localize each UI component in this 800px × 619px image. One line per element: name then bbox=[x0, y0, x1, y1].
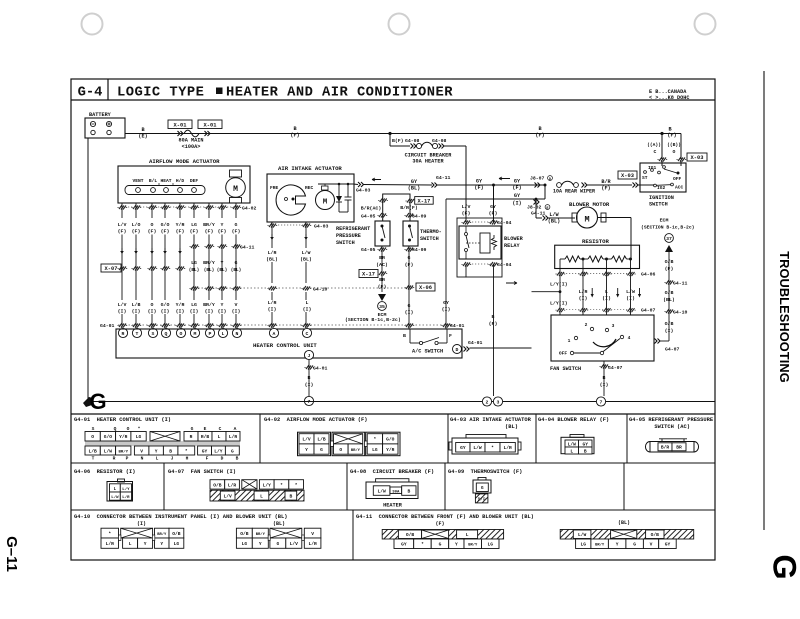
svg-text:L: L bbox=[218, 434, 221, 440]
svg-text:SWITCH (AC): SWITCH (AC) bbox=[654, 424, 690, 430]
svg-text:(I): (I) bbox=[148, 309, 157, 315]
svg-text:(F): (F) bbox=[512, 185, 521, 191]
svg-text:T: T bbox=[92, 456, 95, 462]
svg-text:(F): (F) bbox=[118, 229, 127, 235]
svg-text:Q: Q bbox=[165, 331, 168, 337]
svg-text:G4-01: G4-01 bbox=[313, 366, 328, 372]
svg-text:GY: GY bbox=[665, 542, 671, 548]
svg-text:L/Y(I): L/Y(I) bbox=[550, 301, 568, 307]
svg-text:S: S bbox=[152, 331, 155, 337]
svg-text:G: G bbox=[481, 485, 484, 491]
svg-text:(BL): (BL) bbox=[266, 257, 278, 263]
svg-text:M: M bbox=[323, 199, 328, 207]
svg-text:*: * bbox=[491, 445, 494, 451]
svg-text:R: R bbox=[113, 456, 116, 462]
svg-text:GY: GY bbox=[582, 441, 588, 447]
svg-text:G4-01 HEATER CONTROL UNIT (I): G4-01 HEATER CONTROL UNIT (I) bbox=[74, 417, 171, 423]
svg-text:BLOWER: BLOWER bbox=[504, 236, 524, 242]
svg-text:BR/Y: BR/Y bbox=[256, 532, 266, 537]
svg-text:G: G bbox=[633, 542, 636, 548]
svg-text:L/V: L/V bbox=[118, 302, 127, 308]
svg-text:GY: GY bbox=[401, 542, 407, 548]
svg-text:FRE: FRE bbox=[270, 185, 279, 191]
svg-text:O: O bbox=[151, 222, 154, 228]
svg-text:G4-08 CIRCUIT BREAKER (F): G4-08 CIRCUIT BREAKER (F) bbox=[350, 469, 434, 475]
svg-text:L/Y: L/Y bbox=[122, 487, 130, 492]
svg-text:L/R: L/R bbox=[228, 482, 237, 488]
svg-text:V: V bbox=[235, 302, 238, 308]
svg-text:(I): (I) bbox=[118, 309, 127, 315]
svg-text:G4-11: G4-11 bbox=[240, 245, 255, 251]
svg-text:G4-05: G4-05 bbox=[361, 247, 376, 253]
svg-text:G4-01: G4-01 bbox=[468, 340, 483, 346]
svg-text:BR: BR bbox=[676, 445, 682, 451]
svg-text:10A REAR WIPER: 10A REAR WIPER bbox=[553, 189, 595, 195]
svg-text:(BL): (BL) bbox=[189, 268, 200, 273]
svg-text:(F): (F) bbox=[665, 266, 674, 272]
svg-text:(I): (I) bbox=[600, 382, 609, 388]
svg-text:X-07: X-07 bbox=[105, 266, 118, 272]
svg-text:L: L bbox=[466, 532, 469, 538]
svg-text:O: O bbox=[151, 302, 154, 308]
svg-text:(I): (I) bbox=[442, 307, 451, 313]
svg-text:(F): (F) bbox=[462, 211, 471, 217]
svg-text:L/R: L/R bbox=[504, 445, 513, 451]
svg-text:G4-10: G4-10 bbox=[673, 310, 688, 316]
svg-text:GY: GY bbox=[490, 204, 496, 210]
svg-text:2: 2 bbox=[486, 400, 489, 406]
svg-text:G4-09: G4-09 bbox=[412, 247, 427, 253]
svg-text:J: J bbox=[308, 353, 311, 359]
svg-text:J: J bbox=[171, 456, 174, 462]
svg-text:G4-07: G4-07 bbox=[641, 308, 656, 314]
svg-text:L/W: L/W bbox=[626, 289, 635, 295]
svg-text:THERMO-: THERMO- bbox=[420, 229, 442, 235]
svg-text:B: B bbox=[308, 375, 311, 381]
svg-text:G4-07 FAN SWITCH (I): G4-07 FAN SWITCH (I) bbox=[168, 469, 236, 475]
svg-text:O/B: O/B bbox=[213, 482, 222, 488]
svg-text:L/Y: L/Y bbox=[214, 448, 223, 454]
svg-text:L/W: L/W bbox=[473, 445, 482, 451]
svg-text:P: P bbox=[126, 456, 129, 462]
svg-text:O/B: O/B bbox=[406, 532, 415, 538]
svg-text:BR/Y: BR/Y bbox=[157, 532, 167, 537]
svg-text:D: D bbox=[221, 456, 224, 462]
svg-text:L: L bbox=[129, 541, 132, 547]
svg-text:B: B bbox=[169, 448, 172, 454]
svg-text:(BL): (BL) bbox=[273, 521, 285, 527]
svg-text:X-03: X-03 bbox=[621, 173, 634, 179]
svg-text:(I): (I) bbox=[665, 328, 674, 334]
svg-text:G4-09: G4-09 bbox=[412, 214, 427, 220]
svg-text:G4-04: G4-04 bbox=[497, 262, 512, 268]
svg-text:O/B: O/B bbox=[665, 290, 674, 296]
svg-text:35: 35 bbox=[379, 304, 385, 310]
svg-text:*: * bbox=[374, 437, 377, 443]
svg-text:*: * bbox=[421, 542, 424, 548]
svg-text:L/V: L/V bbox=[224, 494, 233, 500]
svg-text:O: O bbox=[339, 447, 342, 453]
svg-text:Y/R: Y/R bbox=[386, 447, 395, 453]
svg-text:(I): (I) bbox=[512, 201, 521, 207]
svg-text:C: C bbox=[306, 331, 309, 337]
svg-text:G: G bbox=[408, 303, 411, 309]
svg-text:Y/R: Y/R bbox=[176, 302, 185, 308]
svg-text:B/R: B/R bbox=[661, 445, 670, 451]
svg-text:(I): (I) bbox=[602, 296, 611, 302]
svg-text:SWITCH: SWITCH bbox=[420, 236, 439, 242]
svg-text:LG: LG bbox=[580, 542, 586, 548]
svg-text:G4-07: G4-07 bbox=[665, 347, 680, 353]
svg-text:PRESSURE: PRESSURE bbox=[336, 233, 361, 239]
svg-text:IG2: IG2 bbox=[657, 185, 666, 191]
svg-text:L/R: L/R bbox=[579, 289, 588, 295]
svg-text:Y: Y bbox=[616, 542, 619, 548]
svg-text:B/R(AC): B/R(AC) bbox=[361, 206, 382, 212]
svg-text:GY: GY bbox=[514, 179, 521, 185]
svg-text:M: M bbox=[233, 185, 238, 194]
svg-text:L/V: L/V bbox=[118, 222, 127, 228]
svg-text:G4-10 CONNECTOR BETWEEN INSTR: G4-10 CONNECTOR BETWEEN INSTRUMENT PANEL… bbox=[74, 514, 288, 520]
svg-text:R: R bbox=[122, 331, 125, 337]
svg-text:H/D: H/D bbox=[176, 178, 185, 184]
svg-text:(SECTION B-1c,B-2c): (SECTION B-1c,B-2c) bbox=[345, 317, 401, 323]
svg-text:2: 2 bbox=[585, 322, 588, 328]
svg-text:HEATER CONTROL UNIT: HEATER CONTROL UNIT bbox=[253, 342, 317, 349]
svg-text:G4-06: G4-06 bbox=[641, 272, 656, 278]
svg-text:Y: Y bbox=[160, 541, 163, 547]
svg-text:G: G bbox=[439, 542, 442, 548]
svg-text:7: 7 bbox=[600, 400, 603, 406]
svg-text:N: N bbox=[141, 456, 144, 462]
svg-text:(I): (I) bbox=[405, 310, 414, 316]
svg-text:(BL): (BL) bbox=[663, 297, 675, 303]
svg-text:AIRFLOW MODE ACTUATOR: AIRFLOW MODE ACTUATOR bbox=[149, 158, 220, 165]
svg-text:G4-01: G4-01 bbox=[100, 323, 115, 329]
svg-text:G4-03: G4-03 bbox=[314, 224, 329, 230]
svg-text:BR/Y: BR/Y bbox=[468, 543, 478, 548]
svg-text:OFF: OFF bbox=[673, 176, 682, 182]
svg-text:FAN SWITCH: FAN SWITCH bbox=[550, 366, 581, 372]
svg-text:(I): (I) bbox=[218, 309, 227, 315]
svg-text:Y: Y bbox=[221, 222, 224, 228]
svg-text:((A)): ((A)) bbox=[647, 142, 661, 148]
svg-text:Y/R: Y/R bbox=[119, 434, 128, 440]
svg-text:G: G bbox=[408, 255, 411, 261]
svg-text:G4-07: G4-07 bbox=[608, 365, 623, 371]
svg-text:X-01: X-01 bbox=[204, 123, 217, 129]
svg-text:ECM: ECM bbox=[660, 218, 669, 224]
svg-text:Y: Y bbox=[221, 260, 224, 266]
svg-text:L/R: L/R bbox=[106, 541, 115, 547]
svg-text:B/R: B/R bbox=[478, 498, 486, 503]
svg-text:BR/Y: BR/Y bbox=[351, 448, 361, 453]
svg-text:R/B: R/B bbox=[201, 434, 210, 440]
svg-text:B: B bbox=[538, 126, 541, 132]
svg-text:(F): (F) bbox=[405, 262, 414, 268]
svg-text:H: H bbox=[186, 456, 189, 462]
svg-text:30A: 30A bbox=[392, 490, 400, 494]
svg-text:L/B: L/B bbox=[317, 437, 326, 443]
svg-text:B: B bbox=[289, 494, 292, 500]
svg-text:L/W: L/W bbox=[302, 250, 311, 256]
svg-text:(F): (F) bbox=[489, 211, 498, 217]
svg-text:GY: GY bbox=[202, 448, 208, 454]
svg-text:B: B bbox=[403, 333, 406, 339]
svg-text:GY: GY bbox=[514, 193, 521, 199]
svg-text:(F): (F) bbox=[290, 133, 299, 139]
svg-text:SWITCH: SWITCH bbox=[336, 240, 355, 246]
svg-text:(I): (I) bbox=[205, 309, 214, 315]
svg-text:G4-06 RESISTOR (I): G4-06 RESISTOR (I) bbox=[74, 469, 135, 475]
svg-text:(BL): (BL) bbox=[548, 219, 560, 225]
svg-text:(F): (F) bbox=[535, 133, 544, 139]
svg-text:(I): (I) bbox=[305, 382, 314, 388]
svg-text:80A MAIN: 80A MAIN bbox=[179, 138, 204, 144]
svg-text:J8-02: J8-02 bbox=[527, 205, 542, 211]
svg-text:*: * bbox=[295, 482, 298, 488]
svg-text:Y/R: Y/R bbox=[176, 222, 185, 228]
svg-text:O: O bbox=[673, 149, 676, 155]
svg-text:BR/Y: BR/Y bbox=[118, 449, 128, 454]
svg-text:L/W: L/W bbox=[568, 441, 577, 447]
svg-text:(I): (I) bbox=[176, 309, 185, 315]
svg-text:TROUBLESHOOTING: TROUBLESHOOTING bbox=[777, 251, 792, 383]
svg-text:X-06: X-06 bbox=[419, 285, 432, 291]
svg-text:G4-04 BLOWER RELAY (F): G4-04 BLOWER RELAY (F) bbox=[538, 417, 609, 423]
svg-text:(AC): (AC) bbox=[376, 262, 388, 268]
svg-text:G-4: G-4 bbox=[78, 86, 103, 101]
svg-text:(F): (F) bbox=[176, 229, 185, 235]
svg-text:(F): (F) bbox=[132, 229, 141, 235]
svg-text:B: B bbox=[407, 488, 410, 494]
svg-text:(F): (F) bbox=[148, 229, 157, 235]
svg-text:G: G bbox=[89, 389, 106, 414]
svg-text:C: C bbox=[654, 149, 657, 155]
svg-text:L/W: L/W bbox=[377, 488, 386, 494]
svg-text:LOGIC TYPE: LOGIC TYPE bbox=[117, 86, 204, 101]
svg-text:L/Y(I): L/Y(I) bbox=[550, 282, 568, 288]
svg-text:B: B bbox=[603, 375, 606, 381]
svg-text:(F): (F) bbox=[474, 185, 483, 191]
svg-text:V: V bbox=[140, 448, 143, 454]
svg-text:LG: LG bbox=[242, 541, 248, 547]
svg-text:L/R: L/R bbox=[229, 434, 238, 440]
svg-text:(I): (I) bbox=[303, 307, 312, 313]
svg-text:ACC: ACC bbox=[675, 185, 684, 191]
svg-text:(F): (F) bbox=[435, 521, 444, 527]
svg-text:37: 37 bbox=[666, 236, 672, 242]
svg-text:D: D bbox=[456, 347, 459, 353]
svg-text:< >...K8 DOHC: < >...K8 DOHC bbox=[649, 95, 689, 101]
svg-text:BR/Y: BR/Y bbox=[203, 302, 215, 308]
svg-text:L/W: L/W bbox=[578, 532, 587, 538]
svg-text:BR/Y: BR/Y bbox=[595, 543, 605, 548]
svg-text:L: L bbox=[570, 448, 573, 454]
svg-text:B: B bbox=[141, 127, 144, 133]
svg-text:O/B: O/B bbox=[665, 321, 674, 327]
svg-text:P: P bbox=[209, 331, 212, 337]
svg-text:L/B: L/B bbox=[89, 448, 98, 454]
svg-text:(F): (F) bbox=[601, 186, 610, 192]
svg-text:A: A bbox=[273, 331, 276, 337]
svg-text:*: * bbox=[108, 531, 111, 537]
svg-text:4: 4 bbox=[628, 335, 631, 341]
svg-text:O: O bbox=[180, 331, 183, 337]
svg-text:BR: BR bbox=[379, 255, 385, 261]
svg-text:G4-02: G4-02 bbox=[242, 206, 257, 212]
svg-text:IGNITION: IGNITION bbox=[649, 195, 674, 201]
svg-text:X-03: X-03 bbox=[691, 155, 704, 161]
svg-text:(I): (I) bbox=[132, 309, 141, 315]
svg-text:GY: GY bbox=[476, 179, 483, 185]
svg-text:(BL): (BL) bbox=[204, 268, 215, 273]
svg-text:(F): (F) bbox=[190, 229, 199, 235]
svg-text:HEATER AND AIR CONDITIONER: HEATER AND AIR CONDITIONER bbox=[226, 86, 453, 101]
svg-text:J8-07: J8-07 bbox=[530, 176, 545, 182]
svg-text:B: B bbox=[236, 456, 239, 462]
svg-text:Y: Y bbox=[305, 447, 308, 453]
svg-text:*: * bbox=[185, 448, 188, 454]
svg-text:G–11: G–11 bbox=[3, 536, 20, 572]
svg-text:LG: LG bbox=[372, 447, 378, 453]
svg-text:G4-11 CONNECTOR BETWEEN FRONT: G4-11 CONNECTOR BETWEEN FRONT (F) AND BL… bbox=[356, 514, 534, 520]
svg-text:1: 1 bbox=[568, 338, 571, 344]
svg-text:LG: LG bbox=[191, 222, 197, 228]
svg-text:O: O bbox=[91, 434, 94, 440]
svg-text:G4-03 AIR INTAKE ACTUATOR: G4-03 AIR INTAKE ACTUATOR bbox=[450, 417, 532, 423]
svg-text:G4-05: G4-05 bbox=[361, 214, 376, 220]
svg-text:Y: Y bbox=[155, 448, 158, 454]
svg-text:(I): (I) bbox=[190, 309, 199, 315]
svg-text:Y: Y bbox=[455, 542, 458, 548]
svg-text:L/R: L/R bbox=[268, 300, 277, 306]
svg-text:G4-11: G4-11 bbox=[673, 281, 688, 287]
svg-text:G4-09 THERMOSWITCH (F): G4-09 THERMOSWITCH (F) bbox=[448, 469, 522, 475]
svg-text:L/W: L/W bbox=[104, 448, 113, 454]
svg-text:LG: LG bbox=[174, 541, 180, 547]
svg-text:G: G bbox=[320, 447, 323, 453]
svg-text:B: B bbox=[584, 448, 587, 454]
svg-text:O/B: O/B bbox=[665, 259, 674, 265]
svg-text:BR/Y: BR/Y bbox=[203, 222, 215, 228]
svg-text:G/O: G/O bbox=[386, 437, 395, 443]
svg-text:LG: LG bbox=[191, 260, 197, 266]
svg-text:O/B: O/B bbox=[240, 531, 249, 537]
svg-text:M: M bbox=[584, 215, 589, 225]
svg-text:L/V: L/V bbox=[290, 541, 299, 547]
svg-text:O/B: O/B bbox=[172, 531, 181, 537]
svg-text:(F): (F) bbox=[232, 229, 241, 235]
svg-text:(BL): (BL) bbox=[618, 520, 630, 526]
svg-text:(I): (I) bbox=[268, 307, 277, 313]
svg-text:DEF: DEF bbox=[190, 178, 199, 184]
svg-text:Y: Y bbox=[221, 302, 224, 308]
svg-text:V: V bbox=[311, 531, 314, 537]
svg-text:V: V bbox=[650, 542, 653, 548]
svg-text:L/R: L/R bbox=[268, 250, 277, 256]
svg-text:LG: LG bbox=[487, 542, 493, 548]
svg-text:B: B bbox=[492, 314, 495, 320]
svg-text:X-17: X-17 bbox=[362, 272, 375, 278]
svg-text:BR/Y: BR/Y bbox=[203, 260, 215, 266]
svg-text:G4-01: G4-01 bbox=[450, 323, 465, 329]
svg-text:HEATER: HEATER bbox=[383, 503, 403, 509]
svg-text:RELAY: RELAY bbox=[504, 243, 520, 249]
svg-text:AIR INTAKE ACTUATOR: AIR INTAKE ACTUATOR bbox=[278, 165, 342, 172]
svg-text:RESISTOR: RESISTOR bbox=[582, 238, 609, 245]
svg-text:X-01: X-01 bbox=[174, 123, 187, 129]
svg-text:(F): (F) bbox=[218, 229, 227, 235]
svg-text:(BL): (BL) bbox=[505, 424, 518, 430]
svg-text:L: L bbox=[156, 456, 159, 462]
svg-text:G: G bbox=[235, 222, 238, 228]
svg-text:(F): (F) bbox=[161, 229, 170, 235]
svg-text:(I): (I) bbox=[579, 296, 588, 302]
svg-text:R: R bbox=[190, 434, 193, 440]
svg-text:G: G bbox=[235, 260, 238, 266]
svg-text:G4-11: G4-11 bbox=[436, 175, 451, 181]
svg-text:F: F bbox=[206, 456, 209, 462]
svg-text:T: T bbox=[136, 331, 139, 337]
svg-text:(BL): (BL) bbox=[300, 257, 312, 263]
svg-text:L/R: L/R bbox=[308, 541, 317, 547]
svg-text:L/B: L/B bbox=[132, 302, 141, 308]
svg-text:G4-05 REFRIGERANT PRESSURE: G4-05 REFRIGERANT PRESSURE bbox=[629, 417, 714, 423]
svg-text:G/O: G/O bbox=[161, 302, 170, 308]
svg-text:GY: GY bbox=[443, 300, 449, 306]
svg-text:G: G bbox=[767, 554, 800, 579]
svg-text:(I): (I) bbox=[137, 521, 146, 527]
svg-text:Y: Y bbox=[144, 541, 147, 547]
svg-text:G/O: G/O bbox=[161, 222, 170, 228]
svg-text:B/R(F): B/R(F) bbox=[400, 205, 418, 211]
svg-text:F: F bbox=[449, 333, 452, 339]
svg-text:L/V: L/V bbox=[302, 437, 311, 443]
svg-text:L/W: L/W bbox=[111, 495, 119, 500]
svg-text:L/V: L/V bbox=[462, 204, 471, 210]
svg-text:(BL): (BL) bbox=[217, 268, 228, 273]
svg-text:((B)): ((B)) bbox=[667, 142, 681, 148]
svg-text:G4-02 AIRFLOW MODE ACTUATOR (: G4-02 AIRFLOW MODE ACTUATOR (F) bbox=[264, 417, 368, 423]
svg-text:L: L bbox=[260, 494, 263, 500]
svg-text:L/O: L/O bbox=[132, 222, 141, 228]
svg-text:(F): (F) bbox=[667, 133, 676, 139]
svg-text:G4-10: G4-10 bbox=[313, 287, 328, 293]
svg-text:B/R: B/R bbox=[601, 179, 611, 185]
svg-text:G4-03: G4-03 bbox=[356, 188, 371, 194]
svg-text:L/R: L/R bbox=[122, 495, 130, 500]
svg-text:L: L bbox=[222, 331, 225, 337]
svg-text:GY: GY bbox=[411, 179, 418, 185]
svg-text:REFRIGERANT: REFRIGERANT bbox=[336, 226, 370, 232]
svg-text:(BL): (BL) bbox=[231, 268, 242, 273]
svg-text:REC: REC bbox=[305, 185, 314, 191]
svg-text:(I): (I) bbox=[232, 309, 241, 315]
svg-text:L: L bbox=[605, 289, 608, 295]
svg-text:N: N bbox=[236, 331, 239, 337]
svg-text:<100A>: <100A> bbox=[182, 144, 201, 150]
svg-text:B: B bbox=[293, 126, 296, 132]
svg-text:G4-04: G4-04 bbox=[497, 220, 512, 226]
svg-text:(F): (F) bbox=[205, 229, 214, 235]
svg-text:VENT: VENT bbox=[132, 178, 143, 184]
svg-text:Y: Y bbox=[259, 541, 262, 547]
svg-text:HEAT: HEAT bbox=[160, 178, 171, 184]
svg-text:IG1: IG1 bbox=[648, 165, 657, 171]
svg-text:G4-08: G4-08 bbox=[432, 138, 447, 144]
svg-text:G: G bbox=[231, 448, 234, 454]
